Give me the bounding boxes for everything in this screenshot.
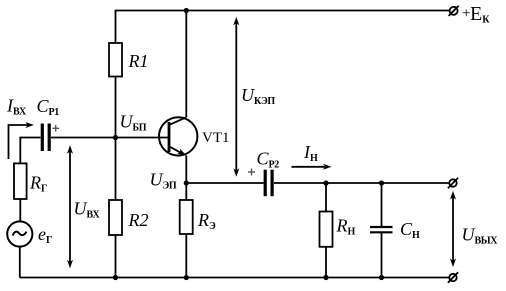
svg-text:RЭ: RЭ — [197, 210, 216, 232]
junction base node — [113, 135, 118, 140]
svg-text:UВЫХ: UВЫХ — [462, 225, 499, 247]
wire bottom rail — [20, 277, 450, 279]
arrow Ivx — [9, 122, 34, 159]
wire emitter node to Re — [185, 183, 187, 200]
wire Rn bottom — [325, 247, 327, 278]
svg-text:R1: R1 — [128, 51, 149, 71]
wire output top — [274, 182, 449, 184]
wire Cn top — [381, 183, 383, 226]
wire top rail — [116, 11, 450, 44]
svg-text:RГ: RГ — [29, 173, 47, 195]
svg-text:eГ: eГ — [38, 224, 52, 246]
junction emitter node — [184, 180, 189, 185]
terminal +Ek — [449, 6, 459, 16]
capacitor Cn — [370, 227, 393, 232]
junction Rn top — [323, 180, 328, 185]
capacitor CP1 — [42, 124, 49, 152]
resistor Re — [180, 200, 193, 234]
junction Cn top — [379, 180, 384, 185]
svg-text:UБП: UБП — [120, 112, 147, 134]
wire Re to bottom rail — [185, 234, 187, 278]
junction Cn bottom — [379, 275, 384, 280]
wire emitter — [185, 156, 187, 184]
resistor Rn — [320, 212, 333, 247]
wire R2 to bottom rail — [115, 235, 117, 278]
svg-text:RН: RН — [336, 216, 356, 238]
svg-text:VT1: VT1 — [202, 130, 230, 146]
wire Cn bottom — [381, 233, 383, 277]
svg-text:EК: EК — [470, 3, 490, 26]
terminal output bottom — [448, 272, 458, 282]
arrow In — [292, 164, 332, 170]
wire base — [51, 137, 169, 139]
plus CP2 — [248, 169, 255, 176]
source eg — [7, 221, 32, 246]
wire base node to R2 — [115, 138, 117, 201]
svg-text:IВХ: IВХ — [6, 96, 27, 118]
svg-text:CР2: CР2 — [257, 149, 280, 171]
label +Ek — [462, 3, 490, 26]
svg-text:CР1: CР1 — [37, 96, 60, 118]
wire R1 to base node — [115, 77, 117, 138]
arrow Ukep — [233, 17, 239, 177]
arrow Uvyx — [450, 191, 456, 267]
arrow Uvx — [67, 145, 73, 268]
capacitor CP2 — [265, 170, 272, 197]
junction Rn bottom — [323, 275, 328, 280]
svg-text:R2: R2 — [128, 210, 149, 230]
resistor Rg — [14, 163, 27, 199]
junction Re bottom — [184, 275, 189, 280]
svg-text:UВХ: UВХ — [74, 199, 101, 221]
svg-text:CН: CН — [400, 219, 420, 241]
wire eg to bottom rail — [19, 246, 21, 277]
svg-text:UКЭП: UКЭП — [241, 85, 275, 107]
terminal output top — [448, 178, 458, 188]
svg-text:IН: IН — [303, 142, 318, 164]
junction R2 bottom — [113, 275, 118, 280]
wire collector — [185, 11, 187, 118]
wire base left — [20, 138, 40, 164]
svg-text:UЭП: UЭП — [150, 170, 177, 192]
resistor R2 — [109, 200, 122, 235]
resistor R1 — [109, 43, 122, 77]
plus CP1 — [53, 125, 60, 132]
junction collector-top — [184, 8, 189, 13]
wire Rn top — [325, 183, 327, 212]
wire emitter to CP2 — [186, 182, 263, 184]
transistor VT1 — [159, 117, 197, 155]
wire Rg to eg — [19, 199, 21, 222]
